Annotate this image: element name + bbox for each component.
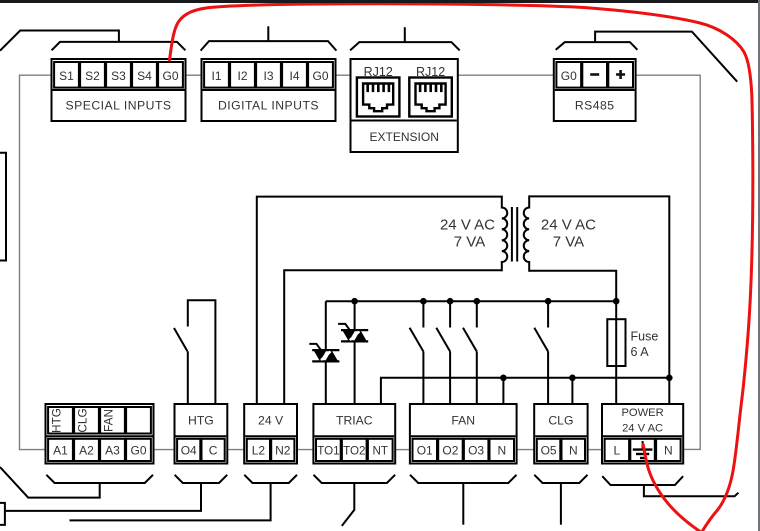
wire segment between SPECIAL and DIGITAL INPUTS — [186, 74, 202, 76]
svg-text:O3: O3 — [468, 443, 484, 457]
svg-text:24 V AC: 24 V AC — [541, 217, 596, 234]
junction — [351, 298, 358, 305]
RJ12 jack (left) — [357, 78, 400, 117]
svg-text:I1: I1 — [211, 69, 221, 83]
label HTG — [188, 414, 214, 428]
cover bracket below HTG block — [175, 475, 228, 483]
svg-text:HTG: HTG — [188, 414, 214, 428]
earth ground symbol in POWER block — [633, 441, 653, 458]
pin - of RS485 — [590, 73, 599, 76]
svg-text:S1: S1 — [59, 69, 74, 83]
pin L2 of 24V — [252, 443, 266, 457]
svg-text:S2: S2 — [85, 69, 100, 83]
terminal block RS485 — [554, 59, 636, 121]
pin TO2 of TRIAC — [343, 444, 365, 457]
pin G0 of DIGITAL INPUTS — [312, 69, 328, 83]
cover bracket above RS485 — [556, 42, 638, 50]
svg-text:G0: G0 — [312, 69, 328, 83]
pin O2 of FAN — [442, 443, 458, 457]
case outline, chamfered top-left corner — [0, 31, 119, 51]
svg-text:N: N — [497, 443, 506, 457]
wire: neutral branch to CLG N — [571, 378, 573, 404]
wire segment between A1 block and HTG — [154, 449, 175, 451]
svg-text:FAN: FAN — [451, 414, 475, 428]
pin N2 of 24V — [275, 443, 291, 457]
terminal block A1 A2 A3 G0 with HTG CLG FAN selector row — [46, 404, 154, 464]
pin S4 of SPECIAL INPUTS — [137, 69, 152, 83]
svg-text:TO1: TO1 — [317, 444, 339, 457]
pin O4 of HTG — [181, 443, 197, 457]
rotated label HTG — [50, 408, 64, 433]
wire: live bus feeding triacs, fan and clg switches and fuse — [326, 300, 616, 302]
label 24 V AC — [622, 423, 663, 435]
terminal block FAN — [410, 404, 517, 464]
label 24 V — [258, 414, 284, 428]
svg-text:A1: A1 — [53, 443, 68, 457]
svg-text:Fuse: Fuse — [631, 330, 659, 344]
svg-text:EXTENSION: EXTENSION — [370, 130, 439, 144]
junction — [474, 298, 481, 305]
wire: transformer secondary top to POWER N — [529, 196, 669, 404]
svg-text:A3: A3 — [105, 443, 120, 457]
case outline, bottom-right corner — [644, 485, 739, 496]
cover bracket above SPECIAL INPUTS — [52, 42, 186, 50]
svg-text:POWER: POWER — [621, 407, 663, 419]
wire: fuse branch down to POWER L terminal — [615, 301, 617, 404]
value label Fuse 6 A — [631, 330, 659, 360]
label EXTENSION — [370, 130, 439, 144]
cover bracket above DIGITAL INPUTS with clip tick — [201, 26, 337, 50]
wire segment between EXTENSION and RS485 — [458, 74, 554, 76]
switch contact CLG O5 — [534, 301, 548, 404]
svg-text:I4: I4 — [289, 69, 299, 83]
svg-text:24 V AC: 24 V AC — [440, 217, 495, 234]
junction — [613, 298, 620, 305]
pin N of FAN — [497, 443, 506, 457]
svg-text:N: N — [569, 443, 578, 457]
svg-text:SPECIAL INPUTS: SPECIAL INPUTS — [65, 99, 171, 113]
cover bracket below POWER block — [602, 476, 683, 485]
case detail bracket at left edge (partial rectangle) — [0, 153, 6, 261]
svg-text:CLG: CLG — [548, 414, 573, 428]
wire segment between FAN and CLG — [517, 449, 535, 451]
pin L of POWER — [614, 443, 621, 457]
junction — [447, 298, 454, 305]
wire segment between HTG and 24V — [227, 449, 244, 451]
svg-text:TO2: TO2 — [343, 444, 365, 457]
pin N of POWER — [664, 443, 673, 457]
svg-text:6 A: 6 A — [631, 345, 650, 359]
label FAN — [451, 414, 475, 428]
junction — [545, 298, 552, 305]
svg-text:I2: I2 — [237, 69, 247, 83]
triac TO1 — [309, 301, 339, 404]
pin I3 of DIGITAL INPUTS — [263, 69, 273, 83]
pin + of RS485 — [616, 70, 625, 79]
svg-text:G0: G0 — [561, 69, 577, 83]
rotated label CLG — [76, 408, 90, 432]
switch contact HTG O4-C — [174, 300, 215, 404]
wire: neutral rail from TRIAC NT across to POWER N branch — [381, 378, 669, 404]
svg-text:N2: N2 — [275, 443, 291, 457]
svg-text:O2: O2 — [442, 443, 458, 457]
pin O1 of FAN — [417, 443, 433, 457]
cover bracket below FAN block with clip tick — [410, 475, 517, 525]
pin N of CLG — [569, 443, 578, 457]
wire: right side from RS485 down to POWER block — [636, 75, 701, 449]
label CLG — [548, 414, 573, 428]
wire: neutral branch to FAN N — [502, 378, 504, 404]
pin TO1 of TRIAC — [317, 444, 339, 457]
svg-text:G0: G0 — [130, 443, 146, 457]
rotated label FAN — [102, 409, 116, 432]
pin I1 of DIGITAL INPUTS — [211, 69, 221, 83]
svg-text:O5: O5 — [541, 443, 557, 457]
wire: transformer primary bottom to 24V N2 terminal — [284, 270, 502, 404]
label POWER — [621, 407, 663, 419]
case detail clip at bottom-left edge — [0, 503, 5, 525]
case line to 24V cover tick — [70, 483, 271, 520]
pin A3 of A1 block — [105, 443, 120, 457]
svg-text:O1: O1 — [417, 443, 433, 457]
case outline, chamfered bottom-left corner — [0, 467, 100, 498]
svg-text:DIGITAL INPUTS: DIGITAL INPUTS — [218, 99, 319, 113]
svg-text:L: L — [614, 443, 621, 457]
switch contact FAN O3 — [463, 301, 477, 404]
terminal block SPECIAL INPUTS — [52, 59, 186, 121]
value label 24 V AC 7 VA (secondary) — [541, 217, 596, 251]
pin S3 of SPECIAL INPUTS — [111, 69, 126, 83]
pin S2 of SPECIAL INPUTS — [85, 69, 100, 83]
svg-text:TRIAC: TRIAC — [336, 414, 373, 428]
value label 24 V AC 7 VA (primary) — [440, 217, 495, 251]
wire: G0 common, left side from SPECIAL INPUTS down to A1 block — [20, 75, 52, 449]
svg-text:C: C — [209, 443, 218, 457]
svg-text:G0: G0 — [162, 69, 178, 83]
wire: transformer secondary bottom down to live bus — [529, 271, 616, 302]
svg-text:24 V AC: 24 V AC — [622, 423, 663, 435]
svg-text:7 VA: 7 VA — [553, 234, 584, 251]
case line from bottom-left clip to HTG cover tick — [5, 483, 201, 511]
wire segment between 24V and TRIAC — [297, 449, 313, 451]
cover bracket below 24V block — [244, 475, 297, 483]
label DIGITAL INPUTS — [218, 99, 319, 113]
terminal block CLG — [534, 404, 587, 464]
svg-text:HTG: HTG — [50, 408, 64, 433]
wire: transformer primary top to 24V L2 terminal — [257, 197, 502, 404]
cover bracket below CLG block with clip tick — [534, 475, 587, 525]
switch contact FAN O2 — [436, 301, 450, 404]
svg-text:L2: L2 — [252, 443, 266, 457]
svg-text:NT: NT — [372, 444, 387, 457]
pin A1 of A1 block — [53, 443, 68, 457]
terminal block 24V — [244, 404, 297, 464]
switch contact FAN O1 — [410, 301, 424, 404]
pin I4 of DIGITAL INPUTS — [289, 69, 299, 83]
svg-text:I3: I3 — [263, 69, 273, 83]
label RS485 — [575, 99, 615, 113]
terminal block POWER — [602, 404, 683, 464]
wire segment between TRIAC and FAN — [395, 449, 410, 451]
svg-text:S3: S3 — [111, 69, 126, 83]
RJ12 jack (right) — [409, 78, 452, 117]
svg-text:CLG: CLG — [76, 408, 90, 432]
svg-text:RJ12: RJ12 — [416, 65, 445, 79]
pin I2 of DIGITAL INPUTS — [237, 69, 247, 83]
junction — [569, 375, 576, 382]
pin O3 of FAN — [468, 443, 484, 457]
pin G0 of A1 block — [130, 443, 146, 457]
svg-text:RS485: RS485 — [575, 99, 615, 113]
cover bracket above EXTENSION with clip tick — [350, 27, 460, 50]
pin S1 of SPECIAL INPUTS — [59, 69, 74, 83]
pin A2 of A1 block — [79, 443, 94, 457]
pin C of HTG — [209, 443, 218, 457]
svg-text:O4: O4 — [181, 443, 197, 457]
pin O5 of CLG — [541, 443, 557, 457]
cover bracket below A1-G0 block — [46, 475, 153, 483]
svg-text:S4: S4 — [137, 69, 152, 83]
label TRIAC — [336, 414, 373, 428]
terminal block DIGITAL INPUTS — [202, 59, 336, 121]
transformer T1 24V AC 7VA — [502, 195, 529, 271]
terminal block TRIAC — [313, 404, 395, 464]
svg-text:N: N — [664, 443, 673, 457]
cover bracket below TRIAC block with clip tick — [314, 475, 396, 526]
svg-text:A2: A2 — [79, 443, 94, 457]
label SPECIAL INPUTS — [65, 99, 171, 113]
junction — [420, 298, 427, 305]
case outline, chamfered top-right corner — [595, 32, 737, 82]
junction — [500, 375, 507, 382]
pin G0 of RS485 — [561, 69, 577, 83]
svg-text:7 VA: 7 VA — [454, 234, 485, 251]
pin NT of TRIAC — [372, 444, 387, 457]
fuse F1 6A — [607, 319, 625, 366]
svg-text:FAN: FAN — [102, 409, 116, 432]
svg-text:RJ12: RJ12 — [364, 65, 393, 79]
connector block EXTENSION with two RJ12 jacks — [351, 59, 458, 152]
label RJ12 (right) — [416, 65, 445, 79]
wire segment between DIGITAL INPUTS and EXTENSION — [336, 74, 351, 76]
svg-text:24 V: 24 V — [258, 414, 284, 428]
red annotation: hand-drawn wire from SPECIAL INPUTS G0 around the case to POWER earth terminal — [170, 4, 753, 531]
label RJ12 (left) — [364, 65, 393, 79]
junction — [666, 375, 673, 382]
terminal block HTG — [175, 404, 228, 464]
pin G0 of SPECIAL INPUTS — [162, 69, 178, 83]
triac TO2 — [338, 301, 368, 404]
wire segment between CLG and POWER — [588, 449, 602, 451]
